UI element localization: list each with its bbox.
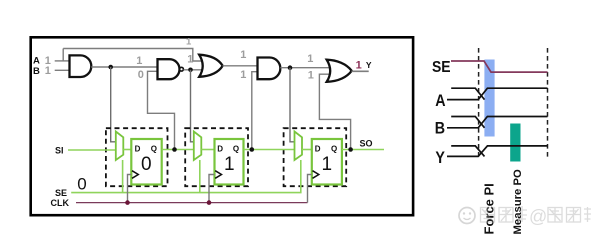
svg-text:Y: Y: [366, 60, 372, 70]
svg-text:SI: SI: [55, 145, 64, 155]
svg-text:1: 1: [187, 53, 193, 65]
svg-text:D: D: [135, 144, 141, 153]
scan cell 3 dashed box: [284, 128, 347, 186]
flip-flop FF1 box: [131, 139, 161, 185]
junction G1 output: [108, 65, 113, 70]
svg-text:1: 1: [240, 49, 246, 61]
timing Y waveform: [451, 146, 484, 157]
junction FF2 Q: [250, 147, 255, 152]
timing B label: [435, 119, 445, 137]
svg-text:Measure PO: Measure PO: [512, 169, 524, 235]
svg-text:A: A: [435, 92, 445, 110]
svg-text:1: 1: [307, 53, 313, 65]
svg-text:1: 1: [186, 37, 192, 48]
wire Y output: [352, 70, 369, 72]
svg-text:Q: Q: [151, 144, 157, 153]
FF1 pin Q: [151, 144, 157, 153]
svg-text:SE: SE: [432, 60, 451, 77]
svg-text:1: 1: [224, 154, 235, 175]
junction CLK cell2: [207, 200, 212, 205]
watermark logo circle: [459, 208, 475, 224]
FF1 state value 0: [141, 154, 152, 175]
svg-text:1: 1: [240, 69, 246, 81]
value 1 at OR G5 top input: [307, 53, 313, 65]
wire G4 output down to MUX3 D input: [290, 68, 295, 142]
svg-text:D: D: [217, 144, 223, 153]
timing Y label: [435, 149, 445, 167]
wire FF3 Q to SO: [342, 149, 384, 151]
AND gate G4: [258, 58, 281, 80]
wire Q3 riser to OR G5 bottom input: [319, 74, 350, 149]
OR gate G3: [199, 55, 223, 77]
timing dashed marker right: [547, 48, 549, 158]
node SO label: [360, 139, 373, 149]
wire SE riser to MUX2 select: [199, 160, 201, 193]
FF3 pin Q: [331, 144, 337, 153]
value 1 at AND G4 bottom input: [240, 69, 246, 81]
svg-text:1: 1: [45, 65, 51, 77]
svg-text:0: 0: [138, 69, 144, 81]
FF1 clock chevron: [132, 171, 138, 179]
svg-text:SO: SO: [360, 139, 373, 149]
FF2 pin Q: [233, 144, 239, 153]
SI input label: [55, 145, 64, 155]
svg-text:Q: Q: [233, 144, 239, 153]
wire G2 output to OR G3 bottom input: [184, 69, 207, 71]
timing B waveform: [451, 117, 484, 128]
wire Q2 riser to AND G4 bottom input: [252, 72, 258, 150]
rotated caption Force PI: [481, 183, 496, 234]
value 1 on A: [45, 55, 51, 67]
FF2 clock chevron: [215, 171, 221, 179]
schematic outer border frame: [31, 37, 413, 215]
force PI blue bar: [484, 60, 494, 137]
wire SE net: [71, 160, 301, 193]
value 0 on SE: [77, 174, 86, 193]
wire SI to MUX1: [68, 149, 116, 151]
mux MUX2: [194, 132, 202, 161]
AND gate G1: [70, 55, 92, 77]
NAND gate G2: [158, 59, 180, 79]
mux MUX1: [116, 132, 124, 161]
flip-flop FF2 box: [215, 139, 244, 185]
svg-text:0: 0: [141, 154, 152, 175]
timing A waveform: [451, 88, 484, 99]
wire MUX1 to FF1 D: [123, 149, 131, 151]
junction FF3 Q: [348, 147, 353, 152]
wire G1 output down to MUX1 D input: [111, 67, 117, 142]
svg-text:D: D: [315, 144, 321, 153]
wire G3 output to AND G4: [223, 65, 259, 67]
svg-text:1: 1: [136, 55, 142, 67]
wire FF2 Q output: [244, 149, 295, 151]
FF3 state value 1: [322, 154, 333, 175]
svg-text:@: @: [529, 207, 547, 227]
timing diagram: SE label: [432, 60, 451, 77]
value 1 at NAND G2 top input: [136, 55, 142, 67]
wire CLK net: [76, 202, 308, 204]
FF1 pin D: [135, 144, 141, 153]
wire CLK riser to FF2: [209, 175, 215, 203]
wire MUX3 to FF3 D: [302, 149, 312, 151]
wire SE riser to MUX1 select: [122, 160, 124, 193]
svg-text:A: A: [33, 55, 40, 66]
FF3 pin D: [315, 144, 321, 153]
svg-text:B: B: [435, 119, 445, 137]
svg-text:SE: SE: [55, 188, 67, 198]
FF3 clock chevron: [313, 171, 319, 179]
svg-text:1: 1: [322, 154, 333, 175]
OR gate G5: [327, 60, 352, 82]
measure PO green bar: [510, 124, 520, 162]
rotated caption Measure PO: [512, 169, 524, 235]
svg-text:1: 1: [356, 60, 362, 72]
timing SE waveform (high then low): [451, 61, 548, 72]
wire B input stub: [55, 69, 70, 71]
flip-flop FF3 box: [312, 139, 342, 185]
wire feedback top run to OR G3: [63, 49, 206, 62]
scan cell 1 dashed box: [106, 128, 168, 186]
junction G4 output: [288, 65, 293, 70]
svg-text:Y: Y: [435, 149, 445, 167]
wire A input stub: [55, 60, 70, 62]
junction FF1 Q: [172, 147, 177, 152]
node B label: [33, 66, 40, 77]
scan cell 2 dashed box: [185, 128, 248, 186]
mux MUX3: [295, 132, 303, 161]
svg-text:B: B: [33, 66, 40, 77]
value 0 at NAND G2 bottom input: [138, 69, 144, 81]
junction CLK cell1: [125, 200, 130, 205]
watermark text blobs: [481, 206, 592, 227]
wire Q1 riser to NAND G2 bottom input: [148, 71, 175, 149]
value 1 on Y (red): [356, 60, 362, 72]
wire CLK riser to FF1: [128, 175, 132, 203]
wire MUX2 to FF2 D: [201, 149, 214, 151]
svg-text:CLK: CLK: [51, 198, 70, 208]
FF2 pin D: [217, 144, 223, 153]
value 1 on feedback wire: [186, 37, 192, 48]
wire CLK riser to FF3: [308, 175, 312, 203]
wire A feedback riser: [62, 49, 64, 61]
svg-text:Q: Q: [331, 144, 337, 153]
timing dashed marker left: [478, 48, 480, 158]
value 1 at AND G4 top input: [240, 49, 246, 61]
value 1 on B: [45, 65, 51, 77]
SE input label: [55, 188, 67, 198]
value 1 at OR G5 bottom input: [308, 70, 314, 82]
svg-text:0: 0: [77, 174, 86, 193]
wire G1 output to NAND G2: [91, 66, 158, 68]
wire FF1 Q output: [162, 149, 194, 151]
timing A label: [435, 92, 445, 110]
node Y label: [366, 60, 372, 70]
svg-text:1: 1: [308, 70, 314, 82]
node A label: [33, 55, 40, 66]
CLK input label: [51, 198, 70, 208]
wire G2 output down to MUX2 D input: [191, 70, 195, 142]
NAND gate G2 bubble: [180, 67, 184, 71]
wire G4 output to OR G5: [280, 67, 330, 69]
junction G2 output: [188, 68, 193, 73]
FF2 state value 1: [224, 154, 235, 175]
value 1 at OR G3 top input: [187, 53, 193, 65]
